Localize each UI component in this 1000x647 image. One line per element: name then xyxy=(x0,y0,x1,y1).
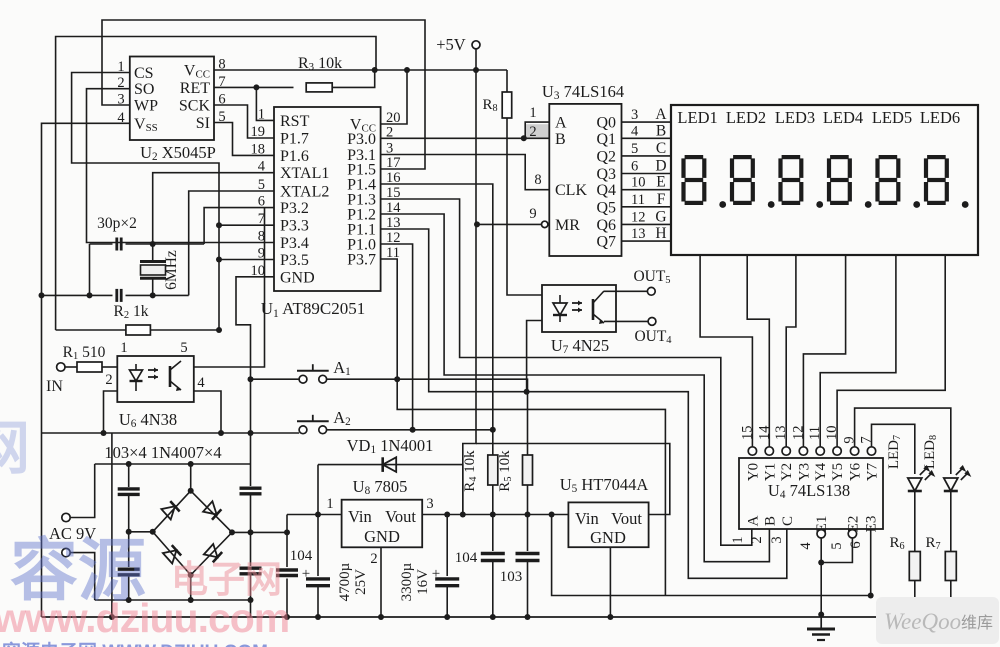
svg-text:5: 5 xyxy=(631,141,638,157)
svg-text:10: 10 xyxy=(824,426,840,441)
IC U7 4N25 body xyxy=(542,285,616,332)
svg-text:Q4: Q4 xyxy=(596,182,616,199)
gray highlight behind U3 pin2 xyxy=(525,124,549,139)
svg-text:GND: GND xyxy=(280,269,315,286)
wire R1 to U6 pin1 xyxy=(102,366,117,368)
wire U8 Vout line xyxy=(422,514,568,516)
svg-text:LED5: LED5 xyxy=(872,108,912,127)
svg-text:5: 5 xyxy=(180,340,187,356)
junction caps-gnd xyxy=(87,292,93,298)
wire CS branch to U1 P3.3 pin7 xyxy=(219,224,274,226)
svg-text:Vin: Vin xyxy=(348,507,372,526)
svg-text:1: 1 xyxy=(529,105,536,121)
wire A2 right to R4 column xyxy=(327,429,493,431)
wire caps left tie xyxy=(90,243,113,245)
wire E2 join E1 xyxy=(821,538,852,563)
wire P3.0 to U3 B xyxy=(381,137,550,139)
svg-text:1: 1 xyxy=(120,340,127,356)
svg-text:A: A xyxy=(746,515,762,526)
junction U6 pin4 gnd xyxy=(218,430,224,436)
wire P1.1 to U4 C xyxy=(381,229,787,578)
junction U1 Vcc riser on rail xyxy=(404,67,410,73)
resistor R1 body xyxy=(77,362,102,372)
wire P1.0 to A2 line xyxy=(381,244,413,430)
svg-text:Q7: Q7 xyxy=(596,234,616,251)
svg-text:CLK: CLK xyxy=(555,182,587,199)
seven-segment digit 2 xyxy=(733,155,752,159)
svg-text:11: 11 xyxy=(807,426,823,440)
junction gnd chain xyxy=(248,430,254,436)
wire P1.4 to R4 pullup column xyxy=(381,184,493,455)
svg-text:F: F xyxy=(657,191,666,208)
wire U7 cathode to P1.2 net xyxy=(527,321,542,393)
svg-text:103: 103 xyxy=(500,569,523,585)
wire U7 emitter to OUT4 xyxy=(604,320,648,322)
resistor R2 body xyxy=(126,325,150,335)
wire bridge bottom rail xyxy=(95,599,251,601)
svg-text:104: 104 xyxy=(455,550,478,566)
decimal point 2 xyxy=(768,201,775,208)
wire X1 mid to bridge left xyxy=(129,531,153,533)
decimal point 6 xyxy=(962,201,969,208)
wire R7 to rail xyxy=(950,581,952,615)
wire U3 A-B tie xyxy=(525,122,549,138)
wire R5 to Vout line xyxy=(527,485,529,515)
bridge diode D3 lower-left xyxy=(163,545,181,563)
svg-text:R2 1k: R2 1k xyxy=(114,303,149,321)
svg-text:12: 12 xyxy=(790,426,806,441)
wire LED7 to R6 xyxy=(914,491,916,552)
wire rail corner to R8 xyxy=(506,70,508,92)
svg-text:XTAL1: XTAL1 xyxy=(280,165,329,182)
wire digit2 to U4 Y1 xyxy=(747,255,769,447)
svg-text:LED7: LED7 xyxy=(886,435,903,469)
wire digit6 to U4 Y5 xyxy=(837,255,945,447)
junction 104 col on rail xyxy=(284,614,290,620)
svg-text:2: 2 xyxy=(105,372,112,388)
capacitor 103 output xyxy=(527,515,529,552)
wire crystal stubs xyxy=(152,244,154,262)
wire crystal top to XTAL1 pin4 xyxy=(153,173,274,244)
svg-text:C: C xyxy=(780,516,796,526)
wire digit1 to U4 Y0 xyxy=(700,255,752,447)
wire U3 Q4 to display segment E xyxy=(622,189,672,191)
svg-text:LED8: LED8 xyxy=(922,435,939,469)
U6 internal transistor xyxy=(169,366,172,387)
junction X1 top xyxy=(126,461,132,467)
svg-text:4700µ: 4700µ xyxy=(337,562,353,601)
junction X1 mid xyxy=(126,529,132,535)
U4 output circle Y6 xyxy=(850,447,858,455)
svg-text:CS: CS xyxy=(134,65,154,82)
IC U8 7805 body xyxy=(342,500,423,548)
seven-segment digit 3 xyxy=(782,155,801,159)
decimal point 3 xyxy=(816,201,823,208)
wire U2 SCK to U1 P1.7 pin19 xyxy=(214,105,274,138)
svg-text:U8 7805: U8 7805 xyxy=(353,477,408,497)
junction U6 pin2 gnd xyxy=(101,430,107,436)
svg-text:2: 2 xyxy=(370,551,377,567)
resistor R5 body xyxy=(523,455,533,485)
svg-text:SCK: SCK xyxy=(179,98,211,115)
svg-text:OUT5: OUT5 xyxy=(633,268,670,286)
junction R3 right on rail xyxy=(372,67,378,73)
resistor R7 body xyxy=(945,552,956,581)
svg-text:R5 10k: R5 10k xyxy=(497,450,514,492)
wire R6 to rail xyxy=(914,581,916,615)
LED LED7 xyxy=(908,478,922,491)
svg-text:Q3: Q3 xyxy=(596,166,616,183)
svg-text:SO: SO xyxy=(134,81,154,98)
junction X2 rect bottom xyxy=(248,597,254,603)
svg-text:Y3: Y3 xyxy=(796,463,812,481)
svg-text:Q1: Q1 xyxy=(596,131,616,148)
svg-text:R4 10k: R4 10k xyxy=(462,450,479,492)
svg-text:R1 510: R1 510 xyxy=(63,344,106,362)
svg-text:P3.0: P3.0 xyxy=(347,131,376,148)
svg-text:R3 10k: R3 10k xyxy=(298,55,342,73)
svg-text:Vout: Vout xyxy=(385,507,416,526)
decimal point 5 xyxy=(913,201,920,208)
wire LED8 to R7 xyxy=(950,491,952,552)
svg-text:LED1: LED1 xyxy=(677,108,717,127)
junction E3 on Vout line xyxy=(868,593,874,599)
IC U3 74LS164 body xyxy=(549,104,621,256)
svg-text:P3.7: P3.7 xyxy=(347,252,376,269)
U7 internal transistor xyxy=(592,299,595,320)
svg-text:9: 9 xyxy=(842,436,858,443)
capacitor 104 input column xyxy=(286,532,288,567)
svg-text:Y6: Y6 xyxy=(848,462,864,481)
svg-text:GND: GND xyxy=(364,527,400,546)
svg-text:13: 13 xyxy=(773,426,789,441)
svg-text:3: 3 xyxy=(631,107,638,123)
wire P1.3 to U4 A xyxy=(381,199,752,545)
svg-text:XTAL2: XTAL2 xyxy=(280,184,329,201)
svg-text:U6 4N38: U6 4N38 xyxy=(119,410,177,430)
svg-text:10: 10 xyxy=(631,175,646,191)
IC U5 HT7044A body xyxy=(568,502,648,547)
svg-text:E3: E3 xyxy=(864,516,880,533)
seven-segment digit 6 xyxy=(927,155,946,159)
svg-text:3: 3 xyxy=(769,536,785,543)
wire AC2 to bridge bottom rail xyxy=(70,553,95,600)
svg-text:GND: GND xyxy=(590,528,626,547)
IC U6 4N38 body xyxy=(117,356,194,402)
IC U2 X5045P body xyxy=(130,57,214,141)
junction E1/E2 xyxy=(818,560,824,566)
junction U7/P1.2 net xyxy=(524,389,530,395)
wire U7 collector to OUT5 xyxy=(604,290,647,292)
seven-segment digit 4 xyxy=(830,155,849,159)
U4 output circle Y2 xyxy=(782,447,790,455)
junction 103 rail xyxy=(525,614,531,620)
pushbutton A1 xyxy=(299,375,307,383)
svg-text:5: 5 xyxy=(829,542,845,549)
svg-text:4: 4 xyxy=(631,123,639,139)
junction +5V terminal on rail xyxy=(473,67,479,73)
U4 output circle Y7 xyxy=(867,447,875,455)
svg-text:P3.4: P3.4 xyxy=(280,235,309,252)
svg-text:P1.6: P1.6 xyxy=(280,148,309,165)
junction bridge bottom rail xyxy=(188,597,194,603)
svg-text:6: 6 xyxy=(631,159,638,175)
wire +5V long vertical xyxy=(463,49,476,515)
svg-text:IN: IN xyxy=(46,378,63,395)
U4 output circle Y5 xyxy=(833,447,841,455)
svg-text:+: + xyxy=(302,566,310,582)
capacitor X1 column xyxy=(128,464,130,487)
svg-text:1: 1 xyxy=(730,536,746,543)
wire +5V monitor to U5 Vout xyxy=(476,444,670,515)
junction 4700u rail xyxy=(315,614,321,620)
wire A2 left ground line xyxy=(42,432,300,434)
svg-text:4: 4 xyxy=(798,542,814,550)
resistor R6 body xyxy=(909,552,920,581)
svg-text:Vout: Vout xyxy=(611,509,642,528)
svg-text:WeeQoo: WeeQoo xyxy=(884,609,961,634)
wire U4 Y7 to LED7 xyxy=(872,424,915,474)
AC terminal lower xyxy=(62,548,70,556)
seven-segment digit 1 xyxy=(685,155,704,159)
wire Vout to E3 line xyxy=(552,515,871,596)
junction R5 col xyxy=(525,512,531,518)
bridge diode D1 upper-left xyxy=(161,501,179,519)
junction P3.7/A1 xyxy=(394,376,400,382)
wire digit3 to U4 Y2 xyxy=(786,255,796,447)
svg-text:16V: 16V xyxy=(415,569,431,595)
U4 output circle Y0 xyxy=(748,447,756,455)
svg-text:LED3: LED3 xyxy=(775,108,815,127)
wire IN to R1 xyxy=(65,366,77,368)
svg-text:Y0: Y0 xyxy=(745,463,761,481)
svg-text:U2 X5045P: U2 X5045P xyxy=(140,143,216,163)
svg-text:11: 11 xyxy=(631,192,645,208)
junction +5V/MR xyxy=(474,221,480,227)
junction 3300u col xyxy=(444,512,450,518)
wire crystal bottom to XTAL2 pin5 xyxy=(189,191,274,295)
svg-text:+: + xyxy=(432,566,440,582)
svg-text:B: B xyxy=(762,516,778,526)
junction CS/P3.3 xyxy=(216,222,222,228)
wire VD1 left leg xyxy=(317,465,319,515)
svg-text:6: 6 xyxy=(848,541,864,548)
resistor R8 body xyxy=(502,92,512,118)
junction bridge right xyxy=(229,529,235,535)
wire U2 RET pin7 to R3 xyxy=(214,86,294,88)
junction U8 gnd rail xyxy=(378,614,384,620)
electrolytic 4700u column xyxy=(317,515,319,577)
diode VD1 xyxy=(318,464,463,466)
wire R4 to Vout line xyxy=(492,485,494,515)
wire R2 right to CS column xyxy=(151,329,220,331)
wire U2 Vss to ground column xyxy=(42,123,130,617)
U6 internal LED xyxy=(135,364,137,370)
wire P3.1 to U3 CLK xyxy=(381,155,550,190)
crystal Y1 6MHz body xyxy=(140,260,166,263)
wire AC1 to bridge top rail xyxy=(70,464,95,518)
wire GND chain from U1 pin10 xyxy=(236,277,274,464)
wire P3.2 pin6 jog xyxy=(204,208,274,244)
bridge diode D4 lower-right xyxy=(204,544,222,562)
U6 internal arrows xyxy=(148,370,158,377)
svg-text:Q5: Q5 xyxy=(596,199,616,216)
svg-text:6MHz: 6MHz xyxy=(163,250,180,290)
svg-text:RST: RST xyxy=(280,113,310,130)
ground symbol xyxy=(820,617,822,629)
electrolytic 3300u column xyxy=(446,515,448,577)
bridge diamond wires xyxy=(153,491,232,575)
svg-text:G: G xyxy=(655,208,666,225)
junction bridge bottom xyxy=(188,572,194,578)
IN terminal xyxy=(57,363,65,371)
LED display module body xyxy=(671,105,978,255)
wire U6 pin5 to P3.2 xyxy=(194,208,265,367)
svg-text:Y2: Y2 xyxy=(779,463,795,481)
svg-text:1: 1 xyxy=(326,496,333,512)
svg-text:P3.5: P3.5 xyxy=(280,252,309,269)
svg-text:D: D xyxy=(655,158,666,175)
wire U2 CS down-around xyxy=(72,73,219,331)
junction 104 out rail xyxy=(490,614,496,620)
svg-text:LED6: LED6 xyxy=(920,108,960,127)
svg-text:30p×2: 30p×2 xyxy=(97,215,137,232)
main ground rail xyxy=(42,616,951,618)
svg-text:B: B xyxy=(555,131,566,148)
wire digit4 to U4 Y3 xyxy=(803,255,845,447)
junction bridge top rail xyxy=(188,461,194,467)
junction 4700u top xyxy=(315,512,321,518)
junction crystal gnd left xyxy=(39,292,45,298)
wire U6 left riser xyxy=(111,433,113,617)
wire U3 Q7 to display segment H xyxy=(622,240,672,242)
svg-text:A: A xyxy=(655,106,667,123)
svg-text:SI: SI xyxy=(196,115,210,132)
wire bridge top rail xyxy=(95,463,251,465)
junction A2/R4 column xyxy=(490,427,496,433)
svg-text:WP: WP xyxy=(134,98,158,115)
U4 output circle Y1 xyxy=(765,447,773,455)
svg-text:103×4 1N4007×4: 103×4 1N4007×4 xyxy=(104,443,221,462)
svg-text:15: 15 xyxy=(739,426,755,441)
svg-text:H: H xyxy=(655,225,666,242)
wire top net1 WP to P1.5 xyxy=(102,20,425,169)
AC terminal upper xyxy=(62,513,70,521)
svg-text:E: E xyxy=(656,174,665,191)
seven-segment digit 5 xyxy=(879,155,898,159)
OUT4 terminal xyxy=(648,318,656,326)
wire U5 GND to rail xyxy=(609,547,611,617)
svg-text:MR: MR xyxy=(555,217,580,234)
wire U3 Q1 to display segment B xyxy=(622,137,672,139)
svg-text:B: B xyxy=(656,122,666,139)
junction P1.0/A2 xyxy=(410,427,416,433)
wire R2 left xyxy=(56,329,126,331)
decimal point 4 xyxy=(865,201,872,208)
junction E1 rail xyxy=(818,612,824,618)
svg-text:Q2: Q2 xyxy=(596,148,616,165)
junction A-B xyxy=(521,135,527,141)
wire +5V to MR xyxy=(477,223,542,225)
junction bridge top xyxy=(188,488,194,494)
svg-text:A: A xyxy=(555,115,567,132)
svg-text:网: 网 xyxy=(0,416,30,481)
svg-text:RET: RET xyxy=(180,80,210,97)
junction U5 gnd rail xyxy=(607,614,613,620)
wire A1 right to R5 pullup xyxy=(327,379,528,455)
wire R3 to rail riser xyxy=(332,70,375,87)
wire R8 down to U7 anode xyxy=(507,118,542,295)
wire U8 GND to rail xyxy=(380,547,382,617)
wire P3.7 long run to enable line xyxy=(381,259,666,596)
junction rail x112 xyxy=(109,614,115,620)
junction X2 mid xyxy=(248,529,254,535)
junction VD1 col xyxy=(460,512,466,518)
wire bridge bottom stub xyxy=(190,575,192,600)
wire U6 pin2 to ground line xyxy=(104,391,118,433)
wire E1 to ground rail xyxy=(820,538,822,615)
wire DC input line to U8 xyxy=(287,514,342,516)
wire digit5 to U4 Y4 xyxy=(820,255,896,447)
svg-text:7: 7 xyxy=(859,436,875,443)
svg-text:9: 9 xyxy=(529,206,536,222)
U4 E1 circle xyxy=(817,530,825,538)
capacitor 104 output xyxy=(492,515,494,552)
svg-text:Vin: Vin xyxy=(575,509,599,528)
wire U1 Vcc pin20 riser xyxy=(381,70,407,124)
junction R4 col xyxy=(490,512,496,518)
U4 output circle Y3 xyxy=(799,447,807,455)
U7 internal arrows xyxy=(572,303,582,310)
svg-text:www.dziuu.com: www.dziuu.com xyxy=(0,595,289,641)
wire VD1 right leg xyxy=(462,465,464,515)
junction crystal bottom xyxy=(150,292,156,298)
junction 104 col mid xyxy=(284,529,290,535)
junction crystal top xyxy=(150,241,156,247)
pushbutton A2 xyxy=(299,426,307,434)
wire bridge right output xyxy=(232,515,287,533)
wire U4 Y6 to LED8 xyxy=(855,408,951,474)
wire U3 Q5 to display segment F xyxy=(622,206,672,208)
wire P1.2 to U4 B xyxy=(381,214,770,562)
junction RST tap xyxy=(253,84,259,90)
capacitor X2 column upper xyxy=(250,464,252,486)
U4 E2 circle xyxy=(848,530,856,538)
wire U3 Q6 to display segment G xyxy=(622,223,672,225)
junction R6 rail xyxy=(912,612,918,618)
weeqoo watermark box xyxy=(876,597,999,644)
wire bridge top stub xyxy=(190,464,192,491)
resistor R3 body xyxy=(306,83,332,92)
svg-text:Q6: Q6 xyxy=(596,217,616,234)
svg-text:3300µ: 3300µ xyxy=(399,562,415,601)
svg-text:Y7: Y7 xyxy=(865,462,881,481)
wire U6 pin4 to ground line xyxy=(194,391,221,433)
wire U2 Vcc pin8 to +5V rail xyxy=(214,69,507,71)
svg-text:104: 104 xyxy=(290,548,313,564)
svg-text:14: 14 xyxy=(756,425,772,440)
LED LED8 xyxy=(944,478,958,491)
wire RST net U2 RET to U1 pin1 xyxy=(256,87,274,120)
capacitor C-30p lower xyxy=(115,289,118,302)
wire E3 down xyxy=(870,529,872,596)
svg-text:C: C xyxy=(656,140,666,157)
svg-text:13: 13 xyxy=(631,226,646,242)
wire U3 Q0 to display segment A xyxy=(622,121,672,123)
bridge diode D2 upper-right xyxy=(203,501,221,519)
svg-text:U7 4N25: U7 4N25 xyxy=(551,336,609,356)
svg-text:P1.7: P1.7 xyxy=(280,131,309,148)
